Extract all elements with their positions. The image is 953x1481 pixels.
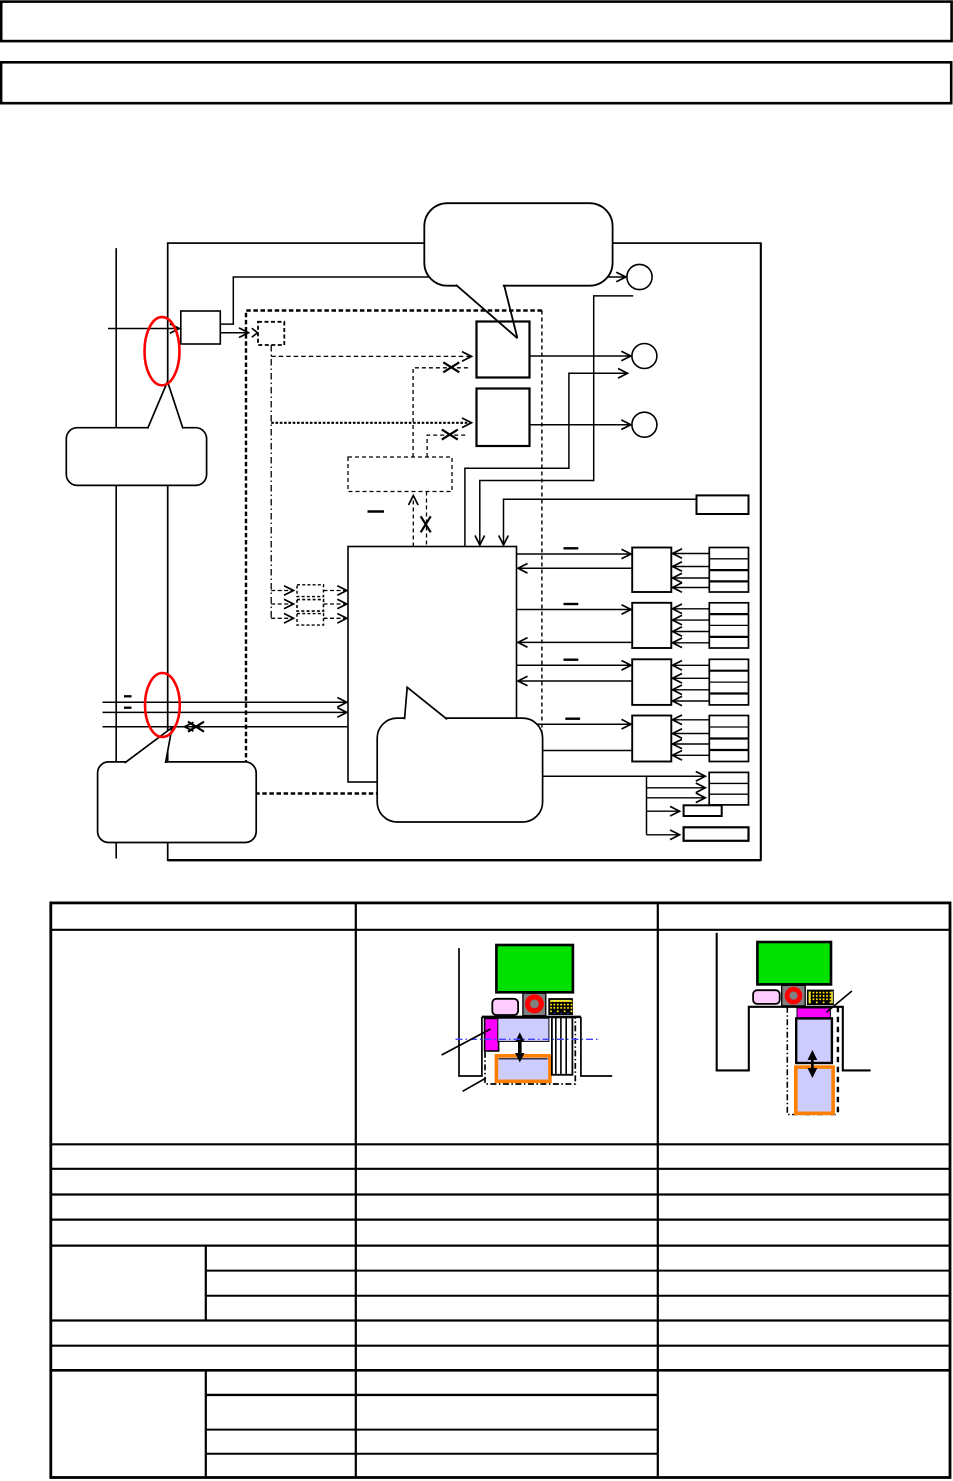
arrow into R3 [647,834,680,836]
bottom-left input wire 2 [103,711,347,713]
block B2 [477,389,530,447]
fig3 keyboard [807,990,834,1006]
big box to MBC arrow [517,664,632,666]
callout TCO pointer [457,284,503,288]
MBA return arrow [518,567,632,569]
wide rect R3 [684,827,749,841]
input block B0 [181,311,221,344]
table row line r4 [51,1218,950,1220]
output circle C2 [632,344,657,369]
small rect R1 [697,495,749,514]
fig2 desk top surface [482,1016,581,1019]
table row line header bottom [51,929,950,931]
title bar 2 [1,62,951,103]
minus above MBC arrow [564,659,579,661]
block B1 [477,322,530,378]
table row line r10 (bold) [51,1369,950,1372]
outer frame right edge (thick) [760,243,762,860]
branch vertical for bottom arrows [646,776,648,835]
callout bubble CO3 (bottom left) [98,762,257,843]
X mark on branch to B2 [442,430,458,440]
outer frame bottom edge (thick) [168,859,761,861]
big box to MBB arrow [517,609,632,611]
wire B2 to C3 [530,424,631,426]
fig2 desk outline [459,948,612,1076]
callout bubble TCO (top) [424,203,612,286]
title bar 1 [1,2,951,42]
fig2 leader line to magenta unit [442,1029,491,1055]
table column line col2/col3 [657,903,659,1478]
fig3 monitor [757,942,831,984]
fig2 blue reference dash line [456,1038,601,1040]
left arrowhead on wire 3 [185,722,194,731]
fig2 height double-arrow [515,1032,524,1062]
table outer border [51,903,950,1478]
table row line s3 [206,1453,658,1455]
stack SKC [709,659,748,705]
small dashed box D1 [258,322,284,345]
callout CO1 pointer [148,382,183,429]
table sub-column bottom segment [205,1370,207,1477]
callout bubble CO1 (left) [66,428,206,486]
chevron at D1 entry [252,328,258,337]
stack to box arrows group D [673,720,710,756]
callout CO2 spike [405,687,448,719]
medium dashed box M1 [348,457,452,492]
big box to MBD arrow [517,723,632,725]
minus above MBA arrow [564,547,579,549]
dash-dot vertical from D1 [270,345,272,618]
fig3 magenta unit [797,1008,830,1018]
output circle C1 [627,264,652,289]
fig3 dash-dot tower enclosure left+bottom [787,1007,838,1115]
callout CO3 pointer [125,728,172,763]
table sub-column top segment [205,1246,207,1321]
medium box MBB [632,603,671,648]
callout bubble CO2 (bottom middle) [377,718,542,822]
dashed branch to B1 [271,355,471,357]
fig2 leader line to orange unit [463,1078,486,1091]
table row line r2 [51,1168,950,1170]
stack SKE [709,772,748,805]
small dashed box D4 [297,614,324,626]
fig2 orange-framed lower unit [496,1056,550,1082]
dashed X-branch to B2 [427,435,468,457]
red ellipse E1 [145,317,180,385]
big dashed container (top,left,bottom) [246,311,542,794]
bold dashed branch to B2 [271,422,471,424]
input arrow into box B0 [108,328,179,330]
fig2 lavender upper unit [498,1018,549,1041]
stack SKD [709,716,748,762]
dashed X-branch to B1 [413,368,468,457]
table row line G bottom [51,1319,950,1321]
wire B1 to C2 [530,355,631,357]
MBC return arrow [518,680,632,682]
table row line r3 [51,1193,950,1195]
fig2 inner unit top line [499,1058,548,1060]
stack to box arrows group C [673,665,710,701]
fig3 pink device [753,990,780,1004]
fig3 desk outline [717,933,871,1071]
stack SKB [709,603,748,648]
table row line G2/G3 [206,1295,950,1297]
tick mark b [124,707,132,709]
fig2 dash-dot under-desk enclosure [485,1017,575,1084]
minus tick near M1 [368,510,385,512]
fig3 tower enclosure right edge [837,1007,839,1115]
tick mark a [124,695,132,697]
arrow into R2 [647,810,680,812]
fig2 pink device [492,999,518,1015]
output circle C3 [632,412,657,437]
small dashed box D3 [297,600,324,612]
left bus vertical line [115,248,117,858]
X mark below M1 [421,516,431,532]
wire stub down into big box [480,296,633,545]
medium box MBA [632,548,671,593]
minus above MBD arrow [565,718,580,720]
big central block [348,547,517,783]
minus above MBB arrow [564,603,579,605]
big box to MBA arrow [517,553,632,555]
arrow B0 to dashed box D1 [220,332,248,334]
X mark on wire 3 [188,722,204,732]
stack to box arrows group A [673,554,710,588]
big dashed container right edge [541,311,543,794]
table row line G1/G2 [206,1270,950,1272]
wire big box to right out arrow [465,373,628,546]
bottom-left wire 3 (blocked) [103,726,348,728]
medium box MBC [632,659,671,705]
dashed line M1 to big box with X [426,492,428,547]
fig2 striped rack [552,1017,573,1074]
small dashed box D2 [297,585,324,597]
small rect R2 [684,805,722,816]
fig3 lavender upper unit [796,1018,832,1063]
table row line s2 [206,1429,658,1431]
medium box MBD [632,716,671,762]
dashed arrows D2-D4 to big box [324,591,347,619]
X mark on branch to B1 [443,362,459,372]
bottom-left input wire 1 [103,701,347,703]
table row line s1 [206,1394,658,1396]
MBD return arrow [518,750,632,752]
fig3 orange-framed lower unit [796,1067,833,1113]
fig3 leader line near keyboard [827,991,852,1012]
diagram outer frame [168,243,761,860]
table column line col1/col2 [355,903,357,1478]
red ellipse E2 [145,673,180,737]
wire small rect R1 into big box [504,499,697,545]
fig2 monitor [496,945,573,992]
arrows into SKE [647,787,706,789]
fig3 stand with ring [782,985,806,1006]
dashed arrows into D2-D4 [271,591,293,619]
bottom wire to stack SKE [517,775,706,777]
table row line figure bottom [51,1143,950,1145]
fig2 stand with ring [523,993,546,1016]
dashed up-arrow into M1 bottom [412,496,414,547]
wire B0 to circle C1 [220,277,626,324]
fig3 height double-arrow [808,1050,818,1078]
table row line r5 (G top) [51,1244,950,1246]
stack SKA [709,548,748,593]
table row line r9 [51,1345,950,1347]
MBB return arrow [518,641,632,643]
fig2 magenta unit [485,1018,499,1051]
fig2 keyboard [548,998,573,1015]
stack to box arrows group B [673,609,710,643]
